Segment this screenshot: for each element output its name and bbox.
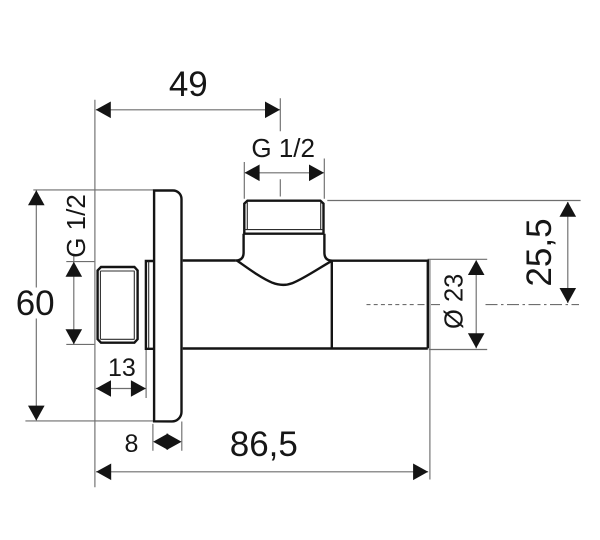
extension lines diameter 23: [428, 259, 488, 349]
arrow 49 left: [96, 102, 111, 119]
nipple thread root lines: [100, 271, 134, 339]
extension line 25,5 top: [327, 200, 580, 202]
arrow 8 left: [153, 433, 168, 450]
neck right side with fillet: [324, 234, 332, 261]
collar inner line: [148, 262, 150, 349]
dimension line diameter 23: [475, 261, 477, 349]
saddle intersection curve: [237, 261, 332, 285]
arrow 60 up: [28, 190, 45, 205]
body bottom edge: [183, 347, 428, 349]
dimension line G 1/2 left: [73, 254, 75, 344]
svg-text:Ø 23: Ø 23: [441, 274, 469, 329]
svg-text:G 1/2: G 1/2: [61, 194, 91, 258]
svg-text:49: 49: [169, 65, 208, 104]
arrow 86,5 left: [96, 464, 111, 481]
arrow dia23 down: [468, 333, 485, 348]
wall flange (rosette): [154, 190, 181, 421]
svg-text:G 1/2: G 1/2: [251, 133, 315, 163]
extension line left (wall face, serves 49/13/86,5): [94, 100, 96, 487]
svg-text:60: 60: [16, 284, 55, 323]
extension lines 60: [25, 190, 153, 421]
arrow 49 right: [265, 102, 280, 119]
inlet thread root lines: [245, 202, 324, 229]
dimension line G 1/2 top: [245, 172, 324, 174]
arrow 25,5 down: [560, 288, 577, 303]
extension line inlet axis (right ext of 49, gap at G 1/2 text): [279, 98, 281, 196]
dimension line 25,5: [567, 202, 569, 303]
arrow 25,5 up: [560, 202, 577, 217]
arrow G1/2 right: [309, 165, 324, 182]
svg-text:86,5: 86,5: [230, 425, 298, 464]
inlet thread G1/2 (top) outer: [244, 201, 323, 234]
svg-text:8: 8: [125, 430, 139, 458]
dimension line 49: [96, 109, 280, 111]
arrow 86,5 right: [413, 464, 428, 481]
arrow G1/2L up: [66, 262, 83, 277]
nipple G1/2 male thread (left) outer: [98, 267, 138, 343]
svg-text:25,5: 25,5: [520, 218, 559, 286]
centerline axis (dash-dot): [367, 304, 416, 306]
dimension line 13: [96, 388, 146, 390]
dimension line 86,5: [96, 471, 428, 473]
neck left side with fillet: [236, 234, 244, 261]
body top edge left of inlet: [183, 259, 236, 261]
dimension line 60 (gap at text): [35, 191, 37, 421]
arrow 60 down: [28, 406, 45, 421]
extension line 86,5 right: [429, 260, 431, 480]
arrow G1/2L down: [66, 329, 83, 344]
inlet collar bottom: [243, 232, 324, 234]
extension line 13 right: [145, 349, 147, 398]
arrow 13 right: [131, 380, 146, 397]
outlet cylinder (right): [332, 261, 428, 349]
svg-text:13: 13: [108, 354, 136, 382]
arrow 13 left: [96, 380, 111, 397]
arrow 8 right: [167, 433, 182, 450]
extension lines G 1/2 left: [66, 262, 94, 345]
arrow dia23 up: [468, 260, 485, 275]
extension lines 8: [153, 422, 182, 451]
arrow G1/2 left: [245, 165, 260, 182]
collar ring between nipple and flange: [146, 261, 154, 349]
extension lines G 1/2 top: [244, 159, 324, 199]
